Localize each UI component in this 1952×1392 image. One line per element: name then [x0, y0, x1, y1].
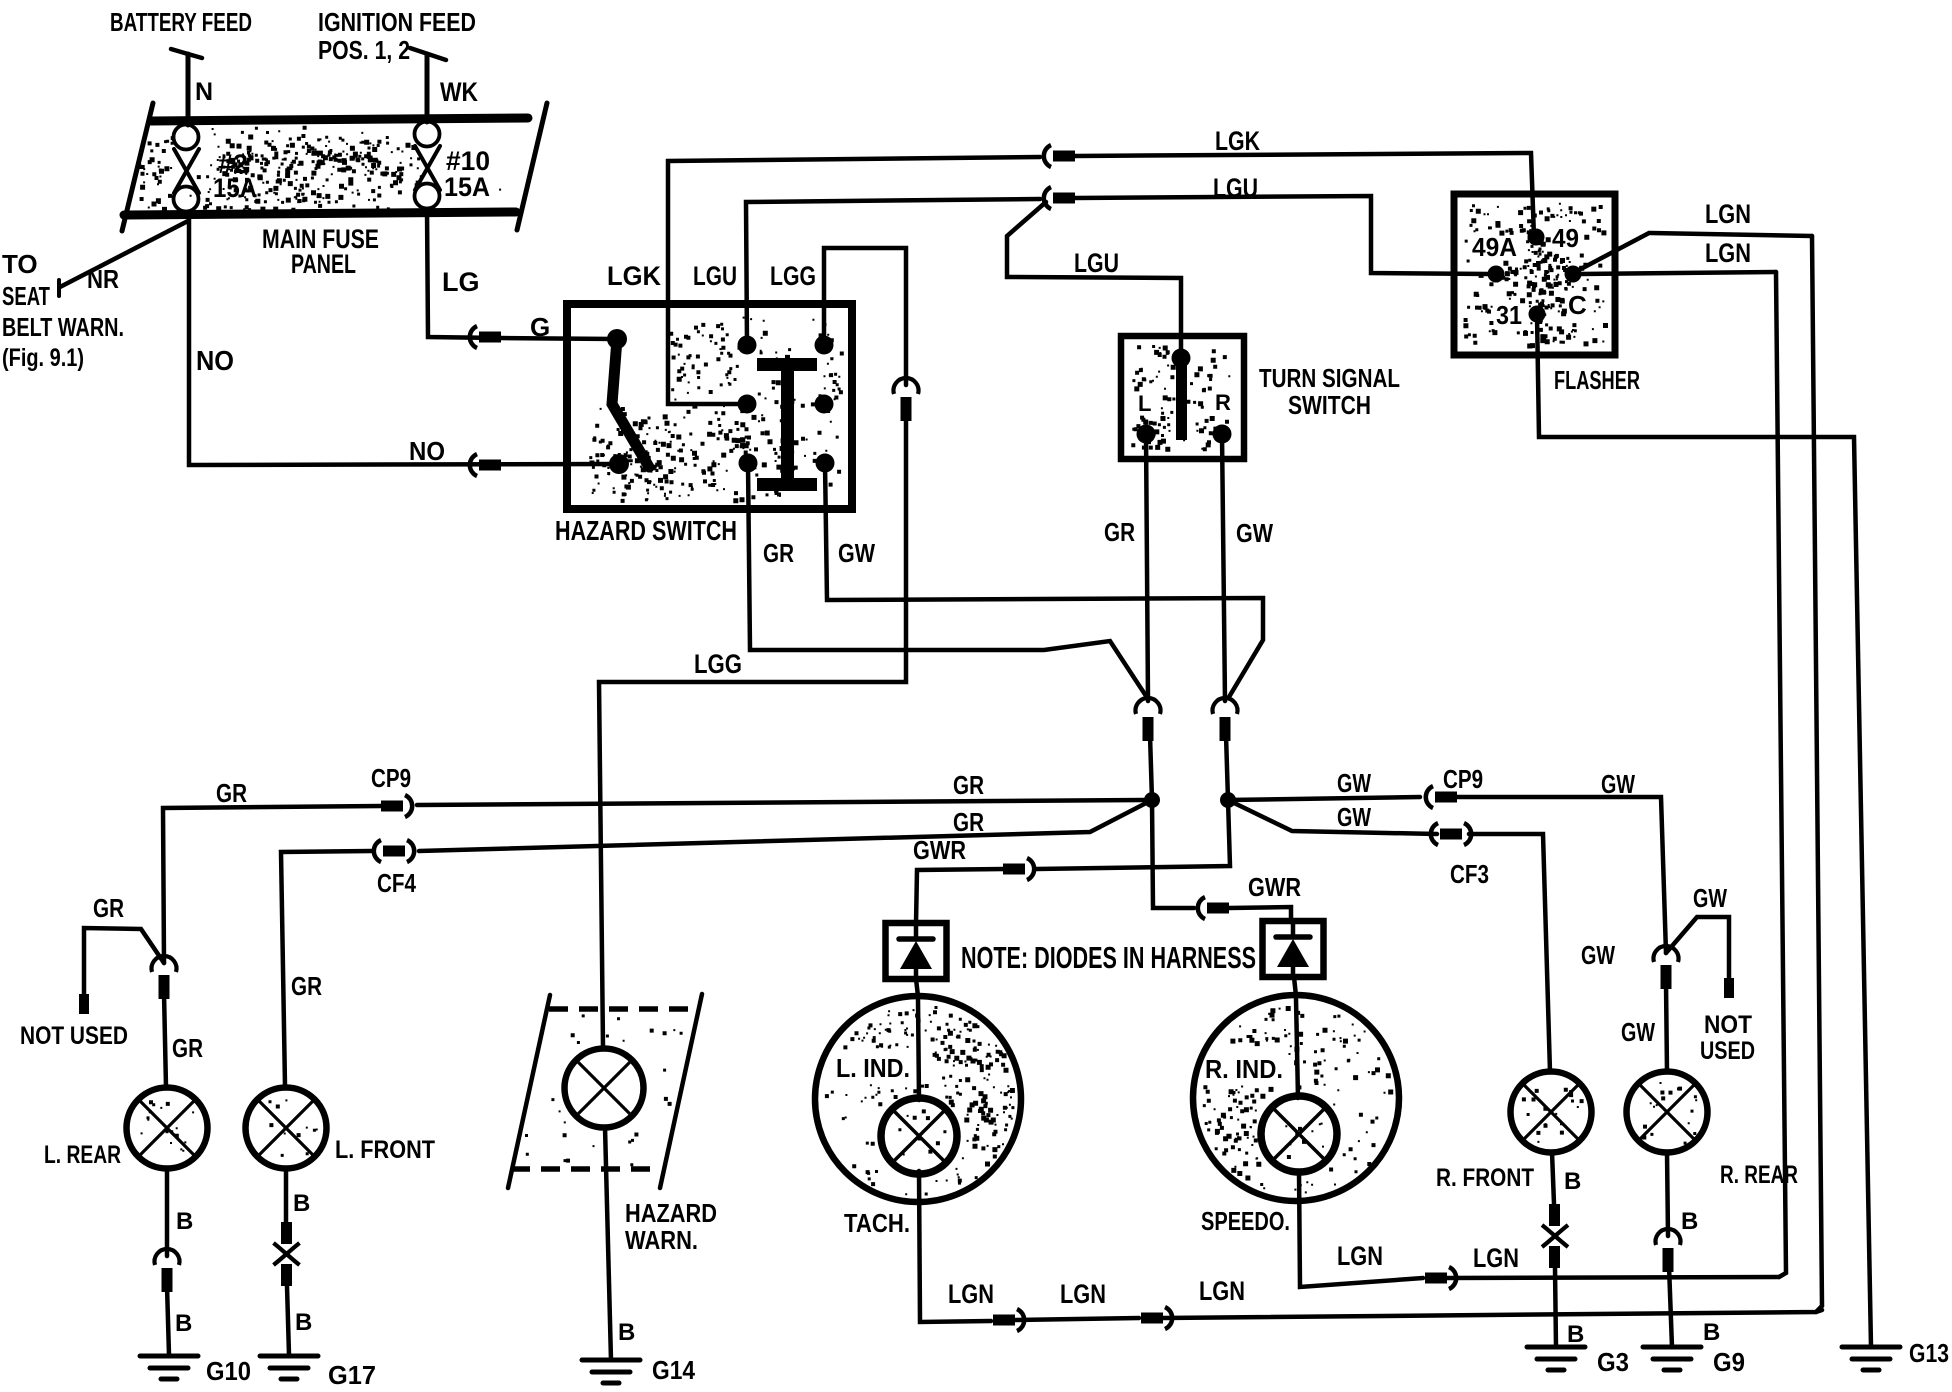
turn signal switch contact R [1213, 425, 1232, 444]
svg-text:PANEL: PANEL [291, 249, 356, 279]
svg-text:GW: GW [1601, 769, 1635, 799]
connector CP9 left [381, 801, 403, 812]
lamp L REAR [127, 1088, 208, 1169]
svg-text:GW: GW [1621, 1017, 1655, 1047]
ground G13 [1842, 1345, 1900, 1350]
wire LGN vertical mid [1776, 272, 1786, 1277]
hazard switch stipple [589, 317, 844, 504]
connector on LGG wire [894, 378, 919, 394]
svg-text:LGU: LGU [1213, 173, 1258, 203]
flasher terminal C [1565, 266, 1582, 283]
connector on NO wire [470, 454, 501, 476]
svg-text:LGN: LGN [1705, 238, 1751, 268]
svg-text:LGU: LGU [1074, 248, 1119, 278]
wire GR via CF4 [419, 800, 1152, 851]
main fuse panel [122, 103, 547, 231]
ground G14 [582, 1358, 640, 1363]
wire B from L FRONT [284, 1168, 289, 1222]
svg-text:GR: GR [172, 1033, 203, 1063]
svg-text:G17: G17 [328, 1360, 376, 1390]
junction node GW [1220, 792, 1236, 808]
svg-text:LG: LG [442, 267, 480, 297]
svg-text:G13: G13 [1909, 1338, 1949, 1368]
tach bulb [881, 1098, 957, 1174]
not used stub right [1666, 917, 1734, 998]
svg-text:C: C [1568, 290, 1587, 320]
ground G3 [1527, 1345, 1585, 1350]
flasher box [1454, 194, 1615, 355]
svg-text:B: B [1681, 1208, 1698, 1235]
svg-text:LGN: LGN [1199, 1276, 1245, 1306]
svg-text:CP9: CP9 [371, 763, 411, 793]
svg-text:LGN: LGN [1473, 1243, 1519, 1273]
wire LGU to turn signal switch [1007, 202, 1181, 358]
wire GW from turn signal R [1222, 434, 1225, 701]
ground G17 [260, 1354, 318, 1359]
svg-text:NO: NO [409, 436, 445, 466]
turn signal switch contact L [1137, 425, 1156, 444]
connector LGN 1 [993, 1315, 1015, 1326]
hazard warn dashed panel [508, 994, 702, 1188]
svg-text:L. REAR: L. REAR [44, 1141, 121, 1169]
wire GW from hazard switch [825, 463, 1263, 697]
svg-text:B: B [293, 1190, 310, 1217]
wire B from flasher 31 to G13 [1537, 314, 1871, 1347]
lamp R REAR [1627, 1072, 1708, 1153]
svg-text:LGN: LGN [1060, 1279, 1106, 1309]
fuse #10 15A [415, 122, 441, 209]
svg-text:G3: G3 [1597, 1347, 1629, 1377]
ground G10 [140, 1354, 198, 1359]
svg-text:GR: GR [291, 971, 322, 1001]
svg-text:GWR: GWR [913, 835, 966, 865]
svg-text:LGG: LGG [694, 649, 742, 679]
svg-text:WARN.: WARN. [625, 1225, 698, 1255]
svg-text:GR: GR [1104, 517, 1135, 547]
R indicator / speedo lamp [1193, 995, 1399, 1201]
svg-text:NR: NR [87, 264, 119, 294]
wire LG / G [427, 209, 616, 339]
svg-text:HAZARD SWITCH: HAZARD SWITCH [555, 515, 737, 546]
wire GR main left [417, 800, 1152, 805]
connector LGN 2 [1141, 1313, 1163, 1324]
L indicator / tach lamp [815, 996, 1021, 1202]
battery feed symbol [171, 49, 202, 125]
svg-text:GR: GR [763, 538, 794, 568]
connector LGN 3 [1425, 1273, 1447, 1284]
wire GWR to speedo diode [1152, 800, 1194, 908]
svg-text:CF3: CF3 [1450, 859, 1489, 889]
connector on R REAR B wire [1656, 1229, 1681, 1245]
hazard switch contacts [738, 336, 835, 473]
svg-text:G9: G9 [1713, 1347, 1745, 1377]
svg-text:G: G [530, 312, 550, 342]
svg-text:49A: 49A [1472, 232, 1517, 262]
svg-text:GR: GR [953, 770, 984, 800]
splice on R FRONT B wire [1542, 1204, 1568, 1268]
svg-text:BATTERY FEED: BATTERY FEED [110, 7, 252, 37]
wire LGK [668, 157, 1040, 404]
connector on right rear GW wire [1653, 946, 1678, 962]
svg-text:G10: G10 [206, 1356, 251, 1386]
svg-text:LGK: LGK [1215, 126, 1260, 156]
svg-text:GW: GW [1236, 518, 1273, 548]
connector on GWR right [1198, 897, 1205, 919]
turn signal switch stipple [1131, 345, 1230, 452]
svg-text:R. IND.: R. IND. [1205, 1054, 1283, 1084]
svg-text:B: B [1703, 1319, 1720, 1346]
svg-text:NOT USED: NOT USED [20, 1022, 128, 1050]
junction node GR [1144, 792, 1160, 808]
svg-text:NO: NO [196, 345, 234, 376]
svg-text:BELT WARN.: BELT WARN. [2, 312, 124, 342]
flasher terminal 49 [1528, 229, 1545, 246]
svg-text:G14: G14 [652, 1355, 695, 1385]
svg-text:SWITCH: SWITCH [1288, 390, 1371, 420]
svg-text:R: R [1215, 390, 1231, 415]
connector on G wire [470, 326, 501, 348]
wire NO [189, 219, 619, 465]
svg-text:GW: GW [838, 538, 875, 568]
svg-text:N: N [195, 78, 213, 106]
svg-text:GW: GW [1337, 802, 1371, 832]
speedo bulb [1261, 1096, 1337, 1172]
wire GW main right [1228, 797, 1420, 800]
connector on LGU wire [1044, 187, 1051, 209]
wire LGN vertical right [1812, 236, 1822, 1312]
wire B from hazard warn [605, 1127, 611, 1360]
fuse panel stipple [139, 126, 501, 212]
svg-text:IGNITION FEED: IGNITION FEED [318, 7, 476, 37]
svg-text:SEAT: SEAT [2, 281, 50, 311]
svg-text:CP9: CP9 [1443, 764, 1483, 794]
svg-text:NOT: NOT [1704, 1011, 1752, 1039]
svg-text:POS. 1, 2: POS. 1, 2 [318, 35, 410, 65]
not used stub left [79, 928, 164, 1014]
svg-text:L: L [1138, 391, 1151, 416]
svg-text:GWR: GWR [1248, 872, 1301, 902]
lamp L FRONT [246, 1088, 327, 1169]
wire LGN from speedo [1299, 1171, 1423, 1287]
connector CP9 right [1426, 786, 1433, 808]
lamp hazard warn [565, 1049, 644, 1128]
svg-text:USED: USED [1700, 1037, 1755, 1065]
svg-text:B: B [176, 1208, 193, 1235]
connector CF3 [1431, 823, 1438, 845]
svg-text:LGK: LGK [607, 261, 661, 291]
svg-text:B: B [618, 1319, 635, 1346]
svg-text:B: B [1564, 1168, 1581, 1195]
svg-text:TO: TO [2, 249, 38, 279]
svg-text:GR: GR [93, 893, 124, 923]
flasher terminal 49A [1488, 266, 1505, 283]
splice on L FRONT B wire [274, 1222, 300, 1286]
connector on GW wire [1213, 698, 1238, 714]
wire GR from hazard switch [748, 463, 1146, 696]
svg-text:WK: WK [440, 77, 478, 107]
turn signal switch box [1121, 336, 1244, 459]
flasher terminal 31 [1529, 306, 1546, 323]
hazard switch lever contacts [607, 329, 629, 474]
svg-text:TACH.: TACH. [844, 1208, 910, 1238]
wire NR to seat belt warn [59, 221, 188, 296]
svg-text:31: 31 [1496, 300, 1522, 330]
svg-text:R. REAR: R. REAR [1720, 1161, 1798, 1189]
wire LGN horizontal from flasher C [1580, 272, 1776, 274]
fuse #2 15A [174, 125, 200, 212]
svg-text:L. IND.: L. IND. [836, 1053, 910, 1083]
svg-text:GW: GW [1581, 940, 1615, 970]
ground G9 [1643, 1345, 1701, 1350]
hazard switch box [567, 304, 852, 509]
svg-text:15A: 15A [444, 172, 490, 202]
svg-text:15A: 15A [213, 173, 257, 203]
svg-text:GR: GR [216, 778, 247, 808]
connector on left rear GR wire [152, 956, 177, 972]
connector CF4 [374, 840, 381, 862]
hazard switch lever [612, 339, 649, 467]
connector on GR wire [1136, 698, 1161, 714]
svg-text:GW: GW [1337, 768, 1371, 798]
wire GWR to tach diode [1036, 800, 1230, 869]
svg-text:LGN: LGN [1705, 199, 1751, 229]
svg-text:CF4: CF4 [377, 868, 416, 898]
svg-text:LGN: LGN [948, 1279, 994, 1309]
wire LGN from tach [919, 1171, 991, 1322]
svg-text:NOTE: DIODES IN HARNESS: NOTE: DIODES IN HARNESS [961, 940, 1256, 975]
svg-text:B: B [175, 1310, 192, 1337]
wire GW via CF3 [1228, 800, 1437, 834]
wire GR from turn signal L [1146, 434, 1148, 701]
wire LGG [824, 248, 906, 385]
diode D2 [1263, 921, 1324, 977]
lamp R FRONT [1511, 1072, 1592, 1153]
svg-text:B: B [1567, 1321, 1584, 1348]
svg-text:TURN SIGNAL: TURN SIGNAL [1259, 363, 1400, 393]
flasher stipple [1463, 203, 1608, 349]
svg-text:GR: GR [953, 807, 984, 837]
svg-text:GW: GW [1693, 883, 1727, 913]
wire LGN diagonal from flasher [1577, 233, 1812, 271]
turn signal switch lever [1172, 349, 1191, 441]
svg-text:HAZARD: HAZARD [625, 1198, 717, 1228]
wire B from R FRONT [1552, 1152, 1554, 1204]
svg-text:LGG: LGG [770, 261, 816, 291]
svg-text:LGU: LGU [693, 261, 737, 291]
hazard switch I-bar [757, 358, 817, 491]
hazard warn panel stipple [525, 1014, 683, 1166]
ignition feed symbol [410, 48, 446, 122]
svg-text:SPEEDO.: SPEEDO. [1201, 1206, 1290, 1236]
wire B from L REAR [165, 1168, 170, 1256]
svg-text:L. FRONT: L. FRONT [335, 1136, 435, 1164]
svg-text:LGN: LGN [1337, 1241, 1383, 1271]
diode D1 [886, 923, 947, 979]
wire B from R REAR [1667, 1152, 1668, 1236]
svg-text:49: 49 [1552, 223, 1579, 253]
svg-text:FLASHER: FLASHER [1554, 365, 1640, 395]
svg-text:(Fig. 9.1): (Fig. 9.1) [2, 344, 84, 372]
svg-text:R. FRONT: R. FRONT [1436, 1164, 1534, 1192]
connector on L REAR B wire [155, 1249, 180, 1265]
connector on LGK wire [1044, 145, 1051, 167]
svg-text:B: B [295, 1309, 312, 1336]
wire LGU [746, 199, 1040, 345]
connector on GWR left [1003, 864, 1025, 875]
